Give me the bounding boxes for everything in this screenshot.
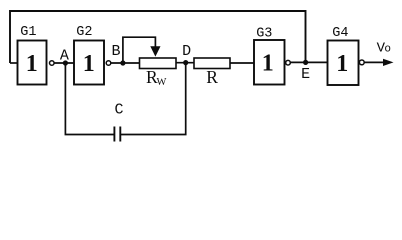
svg-text:G4: G4 (332, 26, 348, 41)
svg-text:1: 1 (83, 51, 95, 77)
svg-text:E: E (301, 66, 310, 83)
svg-text:G2: G2 (76, 25, 92, 40)
svg-text:G3: G3 (256, 26, 272, 41)
svg-text:1: 1 (336, 51, 348, 77)
svg-text:1: 1 (262, 50, 274, 76)
svg-text:o: o (384, 44, 391, 56)
svg-text:1: 1 (26, 51, 38, 77)
svg-text:C: C (114, 102, 123, 119)
svg-text:R: R (206, 67, 218, 87)
svg-text:B: B (111, 43, 120, 60)
svg-text:D: D (182, 43, 191, 60)
svg-text:A: A (60, 48, 69, 65)
svg-text:W: W (157, 77, 167, 88)
svg-text:G1: G1 (20, 25, 36, 40)
